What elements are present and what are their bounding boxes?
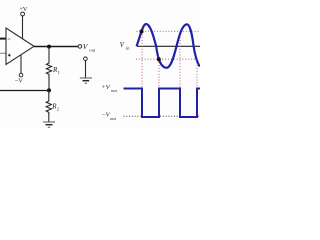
+V supply wire (22, 16, 24, 39)
op-amp U1 (6, 28, 34, 65)
-Vout label (101, 112, 116, 121)
ground at Vout reference (80, 78, 92, 83)
time axis (137, 45, 200, 47)
vertical dotted line t3 (179, 31, 181, 87)
wire feedback (bottom) (0, 90, 49, 92)
+Vout label (101, 84, 117, 93)
ground under R2 (43, 122, 55, 127)
Vout terminal (78, 45, 82, 49)
node output junction (47, 45, 51, 49)
svg-text:out: out (110, 116, 117, 121)
wire output (34, 46, 78, 48)
-V terminal (19, 73, 23, 77)
wire Vout reference to ground (85, 61, 87, 78)
resistor R2 (46, 90, 60, 121)
Vin label (plot) (120, 41, 130, 50)
-Vout dotted level line seg1 (124, 115, 142, 117)
dot upper threshold crossing (140, 30, 144, 34)
lower threshold dotted line (136, 58, 196, 60)
svg-text:+V: +V (101, 84, 110, 91)
+V terminal (21, 12, 25, 16)
svg-text:−V: −V (15, 77, 24, 84)
-V supply wire (20, 55, 22, 74)
resistor R1 (46, 47, 60, 90)
vertical dotted line t2 (158, 59, 160, 87)
svg-text:out: out (111, 88, 118, 93)
Vout label (83, 42, 96, 52)
Vout square wave (124, 89, 201, 118)
svg-text:V: V (120, 41, 125, 49)
svg-text:+V: +V (19, 6, 28, 13)
upper threshold dotted line (137, 30, 200, 32)
Vout reference terminal (84, 57, 88, 61)
vertical dotted line t1 (141, 31, 143, 87)
Vin sine wave (137, 24, 200, 68)
svg-text:out: out (89, 47, 96, 52)
node feedback junction (47, 88, 51, 92)
vertical dotted line t4 (196, 59, 198, 87)
wire noninverting input (0, 52, 6, 54)
-Vout dotted level line seg3 (198, 115, 200, 117)
dot lower threshold crossing (157, 57, 161, 61)
-Vout dotted level line seg2 (160, 115, 179, 117)
wire inverting input (Vin, bold) (0, 38, 6, 40)
